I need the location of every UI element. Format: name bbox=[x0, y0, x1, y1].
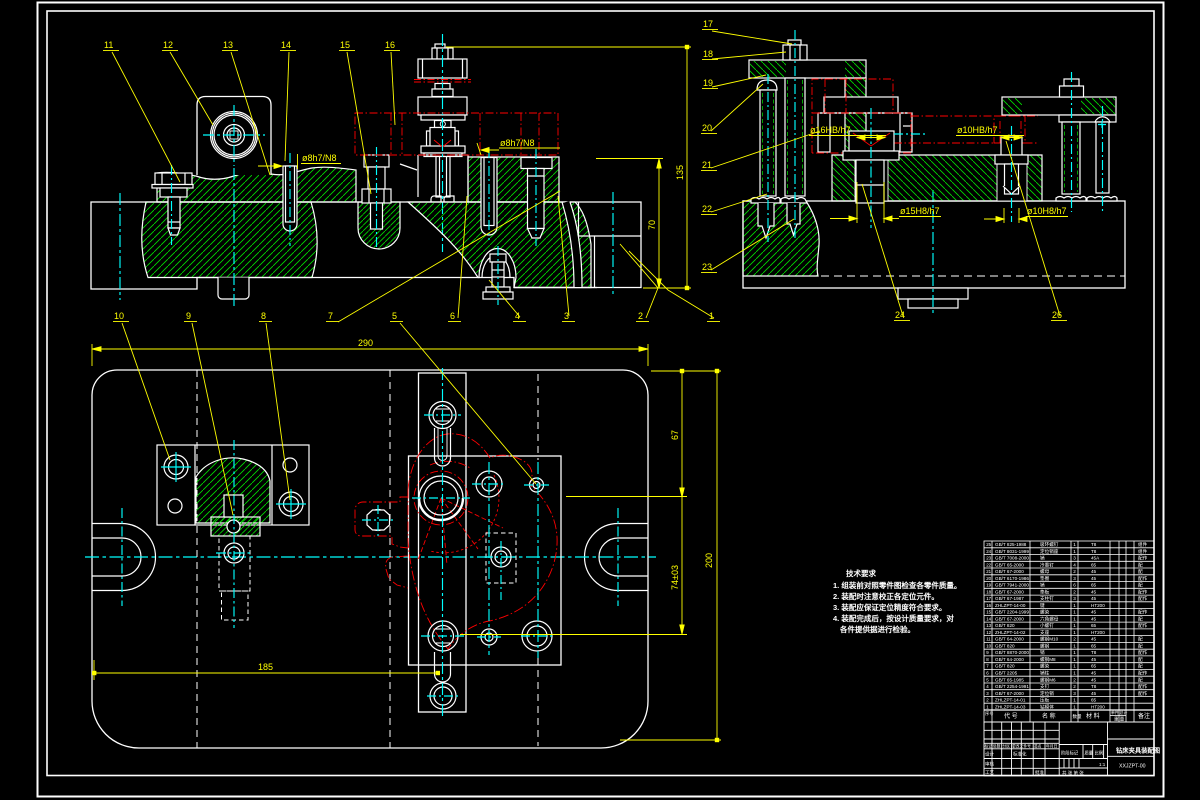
svg-text:11: 11 bbox=[104, 40, 113, 50]
svg-text:批准: 批准 bbox=[1035, 769, 1044, 776]
dim ø10H8/h7 bbox=[984, 208, 1068, 223]
drill plate tongue (vertical strip) bbox=[419, 373, 467, 712]
svg-text:14: 14 bbox=[986, 616, 991, 621]
svg-text:分区: 分区 bbox=[1003, 744, 1011, 749]
svg-text:ZHLZPT-14-02: ZHLZPT-14-02 bbox=[995, 630, 1026, 635]
svg-text:2: 2 bbox=[1073, 589, 1076, 594]
leader 10 bbox=[113, 311, 170, 460]
bottom bolt row bbox=[428, 621, 552, 651]
svg-text:1: 1 bbox=[1073, 603, 1076, 608]
dim ø10HB/h7 bbox=[956, 135, 1024, 140]
svg-text:1: 1 bbox=[1073, 630, 1076, 635]
support screw (part 4) under arch bbox=[482, 254, 513, 299]
leader 19 bbox=[702, 75, 766, 89]
svg-text:23: 23 bbox=[986, 556, 991, 561]
right tower bolt bbox=[1060, 79, 1084, 97]
leader 20 bbox=[701, 84, 763, 134]
right tower flange bbox=[1002, 97, 1116, 122]
svg-text:GB/T 820: GB/T 820 bbox=[995, 623, 1015, 628]
svg-text:1: 1 bbox=[1073, 542, 1076, 547]
svg-text:11: 11 bbox=[986, 637, 991, 642]
svg-text:26: 26 bbox=[1052, 310, 1062, 320]
section trace dashed lines bbox=[197, 370, 538, 748]
svg-text:审核: 审核 bbox=[985, 761, 994, 768]
svg-text:签名: 签名 bbox=[1034, 744, 1042, 749]
svg-text:质量: 质量 bbox=[1085, 750, 1094, 757]
hidden boss dashed rects bbox=[219, 536, 250, 620]
svg-text:200: 200 bbox=[704, 553, 714, 568]
svg-text:3. 装配应保证定位精度符合要求。: 3. 装配应保证定位精度符合要求。 bbox=[833, 602, 946, 612]
spherical washer + centre bolt (part 24) bbox=[843, 131, 899, 203]
slot centerline verticals bbox=[122, 508, 618, 606]
svg-text:6: 6 bbox=[1073, 583, 1076, 588]
svg-text:GB/T 65-1985: GB/T 65-1985 bbox=[995, 677, 1024, 682]
leader 2 bbox=[620, 244, 658, 322]
dim 70 bbox=[596, 159, 663, 289]
leader 4 bbox=[489, 280, 526, 322]
svg-text:6: 6 bbox=[450, 311, 455, 321]
bracket bore circles bbox=[211, 112, 258, 159]
clamp screw stack (parts 15/16 area) bbox=[418, 44, 467, 197]
svg-text:45: 45 bbox=[1091, 616, 1097, 621]
svg-text:3: 3 bbox=[1073, 596, 1076, 601]
svg-text:2. 装配时注意校正各定位元件。: 2. 装配时注意校正各定位元件。 bbox=[833, 591, 939, 601]
svg-text:单件 总计: 单件 总计 bbox=[1111, 710, 1127, 715]
svg-text:GB/T 64-2000: GB/T 64-2000 bbox=[995, 637, 1024, 642]
leader 1 bbox=[629, 251, 720, 322]
clamp nose hatched blob bbox=[196, 458, 270, 523]
svg-text:ø10H8/h7: ø10H8/h7 bbox=[1027, 206, 1067, 216]
svg-text:更改文件号: 更改文件号 bbox=[1012, 744, 1031, 749]
svg-text:工艺: 工艺 bbox=[985, 770, 994, 775]
svg-text:45: 45 bbox=[1091, 657, 1097, 662]
svg-text:垫板: 垫板 bbox=[1040, 588, 1050, 595]
svg-text:22: 22 bbox=[702, 204, 712, 214]
svg-text:螺钢M6: 螺钢M6 bbox=[1040, 676, 1056, 683]
svg-text:ø8h7/N8: ø8h7/N8 bbox=[500, 138, 535, 148]
svg-text:2: 2 bbox=[1073, 637, 1076, 642]
svg-text:12: 12 bbox=[163, 40, 173, 50]
bracket block (part 12) bbox=[197, 97, 271, 176]
svg-text:1. 组装前对照零件图检查各零件质量。: 1. 组装前对照零件图检查各零件质量。 bbox=[833, 580, 961, 590]
upper hatched band under bracket bbox=[157, 167, 356, 202]
leader 13 bbox=[222, 40, 270, 175]
drill bushing slot (ø8 top) bbox=[481, 158, 497, 236]
svg-text:1: 1 bbox=[1073, 549, 1076, 554]
svg-text:钻床夹具装配图: 钻床夹具装配图 bbox=[1116, 746, 1160, 755]
svg-text:45: 45 bbox=[1091, 610, 1097, 615]
svg-text:ZHLZPT-14-03: ZHLZPT-14-03 bbox=[995, 704, 1026, 709]
svg-text:17: 17 bbox=[986, 596, 991, 601]
svg-text:22: 22 bbox=[986, 562, 991, 567]
svg-text:1: 1 bbox=[1073, 664, 1076, 669]
svg-text:螺母: 螺母 bbox=[1040, 568, 1050, 575]
dim 67 bbox=[566, 369, 721, 497]
svg-text:GB/T 2204-1999: GB/T 2204-1999 bbox=[995, 610, 1029, 615]
leader 15 bbox=[339, 40, 371, 194]
svg-text:螺染: 螺染 bbox=[1040, 663, 1050, 670]
svg-text:年月日: 年月日 bbox=[1046, 744, 1058, 749]
svg-text:配作: 配作 bbox=[1138, 683, 1148, 690]
leader 9 bbox=[184, 311, 233, 515]
svg-text:4. 装配完成后，按设计质量要求，对: 4. 装配完成后，按设计质量要求，对 bbox=[833, 613, 954, 623]
svg-text:配作: 配作 bbox=[1138, 595, 1148, 602]
dim ø15H8/h7 bbox=[830, 182, 941, 223]
T-bolt 15 with slot bbox=[358, 155, 400, 249]
leader 22 bbox=[701, 194, 767, 215]
svg-text:XXJZPT-00: XXJZPT-00 bbox=[1119, 764, 1146, 770]
svg-text:数量: 数量 bbox=[1073, 713, 1082, 720]
svg-text:标准化: 标准化 bbox=[1013, 751, 1027, 758]
svg-text:标记: 标记 bbox=[985, 744, 993, 749]
svg-text:钻模体: 钻模体 bbox=[1040, 703, 1054, 710]
svg-text:3: 3 bbox=[1073, 576, 1076, 581]
svg-text:2: 2 bbox=[1073, 677, 1076, 682]
svg-text:GB/T 8031-1999: GB/T 8031-1999 bbox=[995, 549, 1029, 554]
svg-text:10: 10 bbox=[986, 644, 991, 649]
boss under plate bbox=[218, 278, 249, 300]
svg-text:GB/T 6170-1986: GB/T 6170-1986 bbox=[995, 576, 1029, 581]
dim ø8h7/N8 left bbox=[258, 164, 341, 169]
svg-text:65: 65 bbox=[1091, 583, 1097, 588]
svg-text:16: 16 bbox=[986, 603, 991, 608]
clearance around centre bolt bbox=[855, 156, 888, 201]
svg-text:六角螺母: 六角螺母 bbox=[1040, 615, 1059, 622]
svg-text:13: 13 bbox=[223, 40, 233, 50]
svg-text:74±03: 74±03 bbox=[670, 565, 680, 590]
dim 185 bbox=[92, 660, 440, 680]
svg-text:GB/T 820: GB/T 820 bbox=[995, 664, 1015, 669]
svg-text:配作: 配作 bbox=[1138, 575, 1148, 582]
svg-text:45: 45 bbox=[1091, 589, 1097, 594]
drill plate block (hatched, middle) bbox=[832, 155, 1042, 201]
left C-slot bbox=[92, 524, 156, 591]
svg-text:T8: T8 bbox=[1091, 684, 1097, 689]
base plate (plan, rounded) bbox=[92, 370, 648, 748]
svg-text:小螺钉: 小螺钉 bbox=[1040, 622, 1054, 629]
svg-text:1: 1 bbox=[1073, 610, 1076, 615]
svg-text:吸环螺钉: 吸环螺钉 bbox=[1040, 541, 1059, 548]
svg-text:20: 20 bbox=[986, 576, 991, 581]
centerlines left view bbox=[120, 168, 613, 308]
svg-text:处数: 处数 bbox=[993, 744, 1001, 749]
svg-text:185: 185 bbox=[258, 662, 273, 672]
svg-text:设计: 设计 bbox=[985, 751, 994, 758]
svg-text:7: 7 bbox=[328, 311, 333, 321]
svg-text:15: 15 bbox=[986, 610, 991, 615]
svg-text:135: 135 bbox=[675, 165, 685, 180]
svg-text:4: 4 bbox=[1073, 562, 1076, 567]
left tower flange (hatched clamp arm) bbox=[749, 60, 866, 152]
svg-text:重 量: 重 量 bbox=[1114, 716, 1125, 723]
svg-text:ZHLZPT-14-00: ZHLZPT-14-00 bbox=[995, 603, 1026, 608]
clamp screw pad (hatched square) bbox=[211, 517, 260, 536]
svg-text:21: 21 bbox=[986, 569, 991, 574]
second bore bbox=[476, 471, 502, 497]
svg-text:20: 20 bbox=[702, 123, 712, 133]
svg-text:螺染: 螺染 bbox=[1040, 609, 1050, 616]
svg-text:45: 45 bbox=[1091, 569, 1097, 574]
svg-text:ø15H8/h7: ø15H8/h7 bbox=[900, 206, 940, 216]
svg-text:比例: 比例 bbox=[1095, 750, 1104, 757]
leader 21 bbox=[701, 131, 820, 171]
svg-text:压板: 压板 bbox=[1040, 697, 1050, 704]
plan centerlines vertical bbox=[443, 368, 539, 716]
red workpiece section profile bbox=[812, 79, 1038, 153]
leader 7 bbox=[326, 191, 560, 322]
svg-text:15: 15 bbox=[340, 40, 350, 50]
svg-text:配作: 配作 bbox=[1138, 649, 1148, 656]
leader 26 bbox=[1006, 141, 1067, 321]
svg-text:GB/T 67-2000: GB/T 67-2000 bbox=[995, 589, 1024, 594]
svg-text:12: 12 bbox=[986, 630, 991, 635]
red workpiece outline (plan) bbox=[355, 434, 557, 649]
svg-text:螺钢: 螺钢 bbox=[1040, 643, 1050, 650]
svg-text:GB/T 67-1987: GB/T 67-1987 bbox=[995, 596, 1024, 601]
base plate body (part 1) bbox=[91, 202, 641, 289]
svg-text:各件提供据进行检验。: 各件提供据进行检验。 bbox=[839, 624, 915, 634]
svg-text:共 张 第 张: 共 张 第 张 bbox=[1062, 770, 1084, 777]
leader 23 bbox=[701, 219, 794, 273]
clamp bracket (plan) bbox=[157, 445, 309, 525]
svg-text:45A: 45A bbox=[1091, 556, 1100, 561]
left clamp body hatch bbox=[142, 202, 317, 278]
hidden boss dashed rect right bbox=[486, 533, 516, 583]
svg-text:1: 1 bbox=[1073, 616, 1076, 621]
keyhole slot top bbox=[435, 428, 451, 466]
leader 6 bbox=[448, 196, 467, 322]
svg-text:45: 45 bbox=[1091, 691, 1097, 696]
bottom boss of plate bbox=[898, 288, 968, 308]
svg-text:65: 65 bbox=[1091, 664, 1097, 669]
svg-text:GB/T 7941-2000: GB/T 7941-2000 bbox=[995, 583, 1029, 588]
svg-text:垫圈: 垫圈 bbox=[1040, 575, 1050, 582]
svg-text:销: 销 bbox=[1040, 649, 1045, 656]
tongue bottom bolt bbox=[430, 683, 456, 709]
svg-text:技术要求: 技术要求 bbox=[846, 568, 876, 578]
hex nut on red tab bbox=[367, 510, 390, 531]
svg-text:24: 24 bbox=[986, 549, 991, 554]
svg-text:配作: 配作 bbox=[1138, 690, 1148, 697]
leader 5 bbox=[390, 311, 536, 484]
svg-text:键: 键 bbox=[1040, 602, 1045, 609]
svg-text:ø10HB/h7: ø10HB/h7 bbox=[957, 125, 998, 135]
base plate (side section) bbox=[743, 201, 1125, 288]
right drill bolt (part 26) bbox=[995, 137, 1028, 194]
locating pin 13 slot bbox=[283, 166, 297, 231]
dim 200 bbox=[620, 369, 721, 742]
svg-text:代 号: 代 号 bbox=[1004, 712, 1018, 720]
svg-text:1: 1 bbox=[1073, 623, 1076, 628]
red workpiece box (section) bbox=[355, 113, 558, 155]
clearance around right bolt bbox=[997, 156, 1027, 201]
svg-text:阶段标记: 阶段标记 bbox=[1061, 750, 1079, 757]
svg-text:配作: 配作 bbox=[1138, 609, 1148, 616]
svg-text:17: 17 bbox=[703, 19, 713, 29]
bracket centerlines bbox=[203, 105, 265, 166]
svg-text:T8: T8 bbox=[1091, 650, 1097, 655]
svg-text:1: 1 bbox=[1073, 698, 1076, 703]
svg-text:2: 2 bbox=[1073, 684, 1076, 689]
title block grid bbox=[984, 722, 1154, 776]
svg-text:GB/T 825-1988: GB/T 825-1988 bbox=[995, 542, 1027, 547]
svg-text:HT200: HT200 bbox=[1091, 704, 1105, 709]
svg-text:备注: 备注 bbox=[1138, 712, 1150, 720]
socket screw (part 3 area) bbox=[521, 158, 552, 239]
leader 14 bbox=[280, 40, 296, 161]
plate right recess steps bbox=[579, 202, 642, 288]
svg-text:2: 2 bbox=[638, 311, 643, 321]
svg-text:1: 1 bbox=[1073, 657, 1076, 662]
small hole with leader target bbox=[530, 478, 544, 492]
plate left hatched body bbox=[743, 201, 819, 276]
svg-text:25: 25 bbox=[986, 542, 991, 547]
svg-text:定位销: 定位销 bbox=[1040, 690, 1054, 697]
upper drill block hatch (right) bbox=[468, 157, 559, 202]
svg-text:1: 1 bbox=[1073, 644, 1076, 649]
svg-text:GB/T 2205: GB/T 2205 bbox=[995, 671, 1018, 676]
svg-text:支座: 支座 bbox=[1040, 629, 1050, 636]
leader 11 bbox=[103, 40, 180, 182]
right tower thick stud bbox=[1056, 122, 1086, 201]
svg-text:18: 18 bbox=[703, 49, 713, 59]
svg-text:1: 1 bbox=[1073, 704, 1076, 709]
svg-text:45: 45 bbox=[1091, 671, 1097, 676]
svg-text:19: 19 bbox=[703, 78, 713, 88]
svg-text:配作: 配作 bbox=[1138, 670, 1148, 677]
drill plate main bbox=[409, 456, 562, 665]
svg-text:销: 销 bbox=[1040, 555, 1045, 562]
svg-text:45: 45 bbox=[1091, 637, 1097, 642]
svg-text:定位销座: 定位销座 bbox=[1040, 548, 1059, 555]
bolt 17 on left tower bbox=[783, 40, 807, 60]
svg-text:3: 3 bbox=[1073, 691, 1076, 696]
dim ø8h7/N8 right bbox=[477, 143, 560, 155]
dim 290 bbox=[92, 344, 648, 366]
svg-text:组件: 组件 bbox=[1138, 541, 1148, 548]
svg-text:T8: T8 bbox=[1091, 542, 1097, 547]
dim ø16HB/h7 bbox=[809, 135, 886, 140]
svg-text:GB/T 7008-2000: GB/T 7008-2000 bbox=[995, 556, 1029, 561]
svg-text:配作: 配作 bbox=[1138, 588, 1148, 595]
svg-text:ZHLZPT-14-01: ZHLZPT-14-01 bbox=[995, 698, 1026, 703]
svg-text:10: 10 bbox=[114, 311, 124, 321]
svg-text:组件: 组件 bbox=[1138, 548, 1148, 555]
svg-text:支柱钉: 支柱钉 bbox=[1040, 595, 1054, 602]
white locator piece (center) bbox=[818, 97, 912, 152]
svg-text:65: 65 bbox=[1091, 698, 1097, 703]
keyhole slot bottom bbox=[435, 652, 451, 682]
leader 16 bbox=[384, 40, 400, 125]
svg-text:GB/T 820: GB/T 820 bbox=[995, 644, 1015, 649]
red ghost lines across stack bbox=[414, 80, 471, 83]
svg-text:配作: 配作 bbox=[1138, 622, 1148, 629]
svg-text:配作: 配作 bbox=[1138, 555, 1148, 562]
svg-text:ø8h7/N8: ø8h7/N8 bbox=[302, 153, 337, 163]
leader 18 bbox=[702, 49, 786, 60]
svg-text:70: 70 bbox=[647, 220, 657, 230]
svg-text:19: 19 bbox=[986, 583, 991, 588]
svg-text:GB/T 67-2000: GB/T 67-2000 bbox=[995, 691, 1024, 696]
middle body hatch with S-curves bbox=[408, 202, 591, 288]
big bore bbox=[419, 476, 463, 520]
svg-text:HT200: HT200 bbox=[1091, 630, 1105, 635]
svg-text:1: 1 bbox=[1073, 671, 1076, 676]
svg-text:GB/T 2254-1991: GB/T 2254-1991 bbox=[995, 684, 1029, 689]
svg-text:45: 45 bbox=[1091, 677, 1097, 682]
svg-text:65: 65 bbox=[1091, 644, 1097, 649]
leader 17 bbox=[702, 19, 792, 44]
right rear stud with dome bbox=[1087, 117, 1117, 201]
svg-text:ø16HB/h7: ø16HB/h7 bbox=[810, 125, 851, 135]
svg-text:5: 5 bbox=[392, 311, 397, 321]
svg-text:23: 23 bbox=[702, 262, 712, 272]
svg-text:18: 18 bbox=[986, 589, 991, 594]
hidden line in plate bbox=[743, 275, 1125, 277]
svg-text:8: 8 bbox=[261, 311, 266, 321]
svg-text:螺钢M10: 螺钢M10 bbox=[1040, 636, 1059, 643]
svg-text:螺钢M8: 螺钢M8 bbox=[1040, 656, 1056, 663]
svg-text:290: 290 bbox=[358, 338, 373, 348]
svg-text:名 称: 名 称 bbox=[1042, 712, 1056, 720]
svg-text:GB/T 67-2000: GB/T 67-2000 bbox=[995, 569, 1024, 574]
dim 135 bbox=[446, 45, 691, 290]
svg-text:45: 45 bbox=[1091, 576, 1097, 581]
leader 24 bbox=[862, 184, 910, 321]
svg-text:冷墨钉: 冷墨钉 bbox=[1040, 561, 1054, 568]
dim 74±0.3 bbox=[460, 497, 687, 635]
clamp plan bolt holes bbox=[164, 455, 303, 516]
svg-text:1: 1 bbox=[1073, 650, 1076, 655]
svg-text:3: 3 bbox=[1073, 556, 1076, 561]
right C-slot bbox=[585, 524, 649, 591]
svg-text:24: 24 bbox=[895, 310, 905, 320]
svg-text:45: 45 bbox=[1091, 596, 1097, 601]
svg-text:GB/T 64-2000: GB/T 64-2000 bbox=[995, 657, 1024, 662]
leader 8 bbox=[259, 311, 290, 500]
svg-text:HT200: HT200 bbox=[1091, 603, 1105, 608]
svg-text:销: 销 bbox=[1040, 582, 1045, 589]
svg-text:支钉: 支钉 bbox=[1040, 683, 1050, 690]
svg-text:2: 2 bbox=[1073, 569, 1076, 574]
svg-text:销柱: 销柱 bbox=[1040, 670, 1050, 677]
leader 12 bbox=[162, 40, 213, 125]
svg-text:13: 13 bbox=[986, 623, 991, 628]
svg-text:1:1: 1:1 bbox=[1099, 762, 1106, 767]
svg-text:65: 65 bbox=[1091, 623, 1097, 628]
svg-text:GB/T 65-2000: GB/T 65-2000 bbox=[995, 562, 1024, 567]
tongue top bolt bbox=[429, 402, 456, 429]
main horizontal centerline bbox=[85, 556, 656, 558]
svg-text:65: 65 bbox=[1091, 562, 1097, 567]
left stud pair bbox=[751, 78, 807, 238]
svg-text:9: 9 bbox=[186, 311, 191, 321]
screw 11 bbox=[152, 173, 193, 235]
leader 3 bbox=[558, 196, 575, 322]
svg-text:T8: T8 bbox=[1091, 549, 1097, 554]
clamp screw body bbox=[224, 495, 243, 517]
svg-text:GB/T 67-2000: GB/T 67-2000 bbox=[995, 616, 1024, 621]
svg-text:67: 67 bbox=[670, 430, 680, 440]
svg-text:材 料: 材 料 bbox=[1086, 712, 1100, 720]
svg-text:序号: 序号 bbox=[985, 710, 993, 717]
svg-text:16: 16 bbox=[385, 40, 395, 50]
BOM table grid bbox=[984, 541, 1154, 722]
svg-text:GB/T 8870-2000: GB/T 8870-2000 bbox=[995, 650, 1029, 655]
svg-text:14: 14 bbox=[281, 40, 291, 50]
svg-text:21: 21 bbox=[702, 160, 712, 170]
